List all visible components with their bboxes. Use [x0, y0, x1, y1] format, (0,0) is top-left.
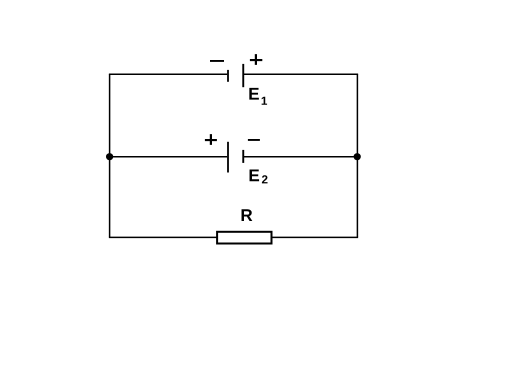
label E2: [250, 170, 260, 182]
wire: bottom right segment from resistor: [272, 236, 359, 238]
node: right junction dot: [354, 153, 361, 160]
node: left junction dot: [106, 153, 113, 160]
wire: bottom left segment to resistor: [109, 236, 217, 238]
battery E2 negative short plate: [242, 150, 244, 163]
wire: left vertical side: [109, 74, 111, 237]
battery E2 minus sign: [248, 139, 260, 141]
battery E1 minus sign: [210, 60, 224, 62]
battery E1 negative short plate: [227, 70, 229, 82]
wire: top left segment to battery E1: [109, 73, 227, 75]
label R: [242, 209, 253, 221]
resistor R body: [217, 232, 271, 244]
battery E1 positive long plate: [242, 64, 244, 87]
wire: middle right segment from battery E2: [244, 156, 357, 158]
wire: top right segment from battery E1: [244, 73, 358, 75]
wire: middle left segment to battery E2: [110, 156, 228, 158]
battery E2 positive long plate: [227, 142, 229, 173]
label E1: [249, 88, 259, 100]
battery E1 plus sign: [250, 54, 262, 65]
battery E2 plus sign: [205, 134, 217, 145]
wire: right vertical side: [356, 74, 358, 237]
